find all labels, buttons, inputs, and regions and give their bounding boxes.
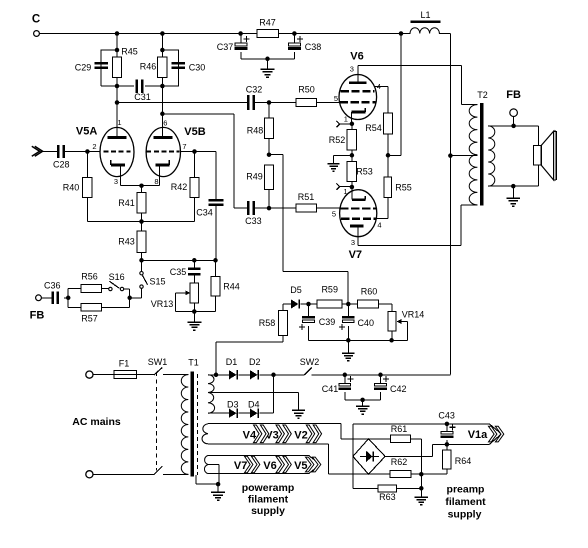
svg-text:4: 4 — [377, 82, 381, 91]
svg-text:R62: R62 — [391, 457, 408, 467]
svg-text:8: 8 — [154, 177, 158, 186]
svg-text:D5: D5 — [290, 285, 302, 295]
svg-text:R48: R48 — [247, 126, 264, 136]
svg-text:L1: L1 — [420, 10, 430, 20]
svg-text:R52: R52 — [329, 135, 346, 145]
svg-text:R61: R61 — [391, 424, 408, 434]
svg-text:C29: C29 — [75, 62, 92, 72]
svg-text:VR13: VR13 — [151, 299, 174, 309]
svg-text:SW1: SW1 — [148, 357, 168, 367]
svg-text:C43: C43 — [438, 411, 455, 421]
svg-text:3: 3 — [114, 177, 118, 186]
svg-text:C40: C40 — [357, 318, 374, 328]
svg-text:C32: C32 — [246, 85, 263, 95]
svg-text:C42: C42 — [390, 384, 407, 394]
svg-text:C39: C39 — [319, 317, 336, 327]
svg-text:C35: C35 — [170, 267, 187, 277]
svg-text:1: 1 — [344, 114, 348, 123]
svg-text:C37: C37 — [217, 42, 234, 52]
svg-text:R53: R53 — [356, 166, 373, 176]
svg-text:R40: R40 — [63, 182, 80, 192]
svg-text:R44: R44 — [223, 282, 240, 292]
svg-text:R60: R60 — [361, 287, 378, 297]
svg-text:D2: D2 — [249, 357, 261, 367]
svg-text:1: 1 — [117, 118, 121, 127]
svg-text:C34: C34 — [196, 208, 213, 218]
svg-text:FB: FB — [506, 89, 521, 101]
svg-text:V6: V6 — [263, 460, 276, 472]
svg-text:C31: C31 — [134, 92, 151, 102]
svg-text:2: 2 — [92, 142, 96, 151]
svg-text:C33: C33 — [245, 216, 262, 226]
svg-text:supply: supply — [448, 508, 482, 520]
svg-text:filament: filament — [445, 496, 486, 508]
svg-text:R47: R47 — [259, 17, 276, 27]
svg-text:R45: R45 — [121, 47, 138, 57]
svg-text:V2: V2 — [294, 429, 307, 441]
svg-text:preamp: preamp — [447, 483, 485, 495]
svg-text:T1: T1 — [188, 357, 199, 367]
svg-text:3: 3 — [351, 238, 355, 247]
svg-text:V4: V4 — [243, 429, 257, 441]
svg-text:R54: R54 — [365, 123, 382, 133]
svg-text:D1: D1 — [226, 357, 238, 367]
svg-text:filament: filament — [248, 494, 289, 506]
svg-text:V5A: V5A — [76, 126, 97, 138]
svg-text:S15: S15 — [149, 276, 165, 286]
svg-text:R56: R56 — [81, 272, 98, 282]
svg-text:7: 7 — [182, 142, 186, 151]
svg-text:V5B: V5B — [184, 126, 205, 138]
svg-text:R55: R55 — [395, 182, 412, 192]
svg-text:V6: V6 — [350, 51, 363, 63]
svg-text:D4: D4 — [248, 399, 260, 409]
svg-text:5: 5 — [332, 210, 336, 219]
svg-text:T2: T2 — [477, 90, 488, 100]
svg-text:5: 5 — [334, 94, 338, 103]
svg-text:C30: C30 — [189, 62, 206, 72]
svg-text:C36: C36 — [44, 280, 61, 290]
svg-text:R43: R43 — [118, 236, 135, 246]
svg-text:R46: R46 — [140, 62, 157, 72]
svg-text:D3: D3 — [227, 399, 239, 409]
svg-text:R42: R42 — [171, 182, 188, 192]
svg-text:R59: R59 — [321, 285, 338, 295]
svg-text:4: 4 — [377, 221, 381, 230]
svg-text:C38: C38 — [305, 42, 322, 52]
svg-text:R51: R51 — [298, 192, 315, 202]
svg-text:SW2: SW2 — [300, 357, 320, 367]
svg-text:R63: R63 — [379, 492, 396, 502]
svg-text:R58: R58 — [259, 318, 276, 328]
svg-text:R57: R57 — [81, 313, 98, 323]
svg-text:R49: R49 — [246, 171, 263, 181]
svg-text:supply: supply — [251, 505, 285, 517]
svg-text:F1: F1 — [119, 358, 130, 368]
svg-text:C41: C41 — [322, 384, 339, 394]
svg-text:FB: FB — [30, 310, 45, 322]
svg-text:V7: V7 — [349, 249, 362, 261]
svg-text:6: 6 — [163, 118, 167, 127]
svg-text:V5: V5 — [294, 460, 307, 472]
svg-text:R64: R64 — [455, 456, 472, 466]
svg-text:R50: R50 — [298, 85, 315, 95]
svg-text:C28: C28 — [53, 159, 70, 169]
svg-text:V7: V7 — [234, 460, 247, 472]
svg-text:C: C — [32, 14, 40, 26]
svg-text:V1a: V1a — [468, 429, 488, 441]
svg-text:poweramp: poweramp — [242, 482, 295, 494]
svg-text:3: 3 — [350, 65, 354, 74]
svg-text:VR14: VR14 — [402, 310, 425, 320]
svg-text:R41: R41 — [118, 198, 135, 208]
svg-text:S16: S16 — [109, 272, 125, 282]
svg-text:AC mains: AC mains — [72, 416, 121, 428]
